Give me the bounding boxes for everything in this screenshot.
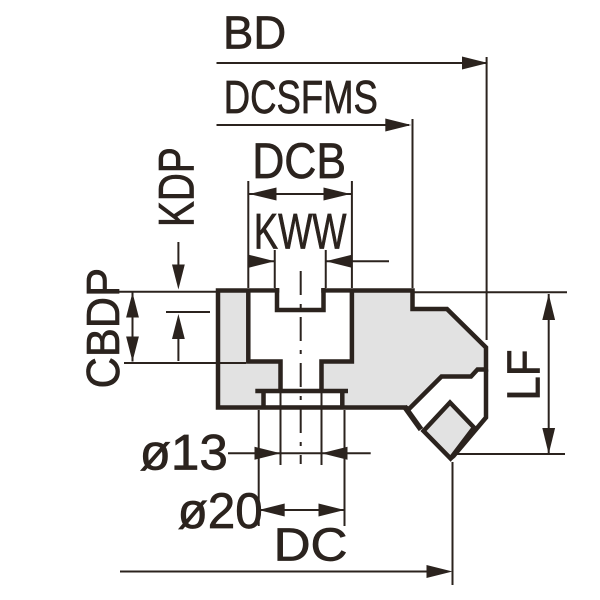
LF dimension line — [548, 294, 550, 454]
DCSFMS dimension line — [217, 124, 410, 126]
DC extension line — [452, 462, 454, 585]
DCB extension line right — [351, 181, 353, 288]
DCB dimension line — [248, 193, 352, 195]
BD arrow — [462, 57, 488, 70]
key slot outline — [277, 288, 324, 310]
svg-text:ø20: ø20 — [178, 483, 263, 539]
KWW arrow left — [249, 255, 275, 268]
o20 extension line right — [344, 410, 346, 526]
KWW extension line left — [274, 250, 276, 288]
cutter body silhouette — [218, 291, 486, 410]
KWW extension line right — [325, 250, 327, 288]
DC arrow — [427, 565, 453, 578]
o20 arrow left — [259, 504, 285, 517]
cavity-shank-flange left outline — [248, 289, 280, 392]
KDP arrow down — [172, 265, 185, 290]
o20 extension line left — [258, 410, 260, 526]
svg-text:DC: DC — [274, 519, 348, 571]
LF top reference line — [414, 291, 567, 293]
DC dimension line — [120, 571, 430, 573]
o13 dimension line — [228, 452, 371, 454]
o13 extension line right — [321, 392, 323, 465]
DCSFMS extension line — [412, 119, 414, 288]
o20 dimension line — [259, 509, 345, 511]
pocket right edge — [451, 370, 487, 459]
svg-text:KWW: KWW — [254, 204, 347, 260]
DCB extension line left — [247, 181, 249, 288]
DCB arrow right — [324, 188, 351, 201]
LF arrow down — [542, 428, 555, 454]
CBDP dimension line — [132, 293, 134, 362]
CBDP arrow up — [126, 293, 139, 318]
key slot opening (white) — [279, 287, 321, 308]
CBDP top reference line — [118, 291, 216, 293]
o13 arrow left — [255, 447, 281, 460]
svg-text:DCSFMS: DCSFMS — [224, 71, 378, 123]
KDP arrow up — [172, 314, 185, 339]
svg-text:DCB: DCB — [252, 133, 346, 189]
KWW dimension line left — [248, 260, 274, 262]
insert (diamond) — [424, 403, 475, 459]
center line — [300, 271, 302, 464]
BD extension line — [486, 57, 488, 340]
svg-text:KDP: KDP — [149, 147, 205, 227]
svg-text:LF: LF — [498, 349, 550, 400]
BD dimension line — [217, 62, 487, 64]
KDP leader line lower — [177, 336, 179, 361]
cavity-shank-flange right outline — [322, 289, 352, 392]
screw shank opening (white) — [283, 359, 320, 389]
o13 arrow right — [322, 447, 348, 460]
pocket jaw — [405, 407, 422, 430]
flange left side — [261, 392, 266, 406]
flange right side — [340, 392, 345, 406]
KWW dimension line right — [326, 260, 389, 262]
LF bottom reference line — [457, 453, 565, 455]
CBDP bottom reference line — [124, 362, 246, 364]
CBDP arrow down — [126, 337, 139, 362]
svg-text:ø13: ø13 — [140, 425, 228, 481]
DCSFMS arrow — [385, 119, 411, 132]
KWW arrow right — [326, 255, 352, 268]
o13 extension line left — [280, 392, 282, 465]
KDP reference tick — [166, 311, 210, 313]
svg-text:BD: BD — [223, 7, 286, 59]
svg-text:CBDP: CBDP — [77, 268, 129, 388]
flange box (white) — [266, 393, 340, 405]
KDP leader line upper — [177, 242, 179, 268]
DCB arrow left — [250, 188, 277, 201]
counterbore cavity (white) — [251, 293, 350, 360]
flange top line — [255, 389, 348, 394]
o20 arrow right — [319, 504, 345, 517]
LF arrow up — [542, 294, 555, 320]
